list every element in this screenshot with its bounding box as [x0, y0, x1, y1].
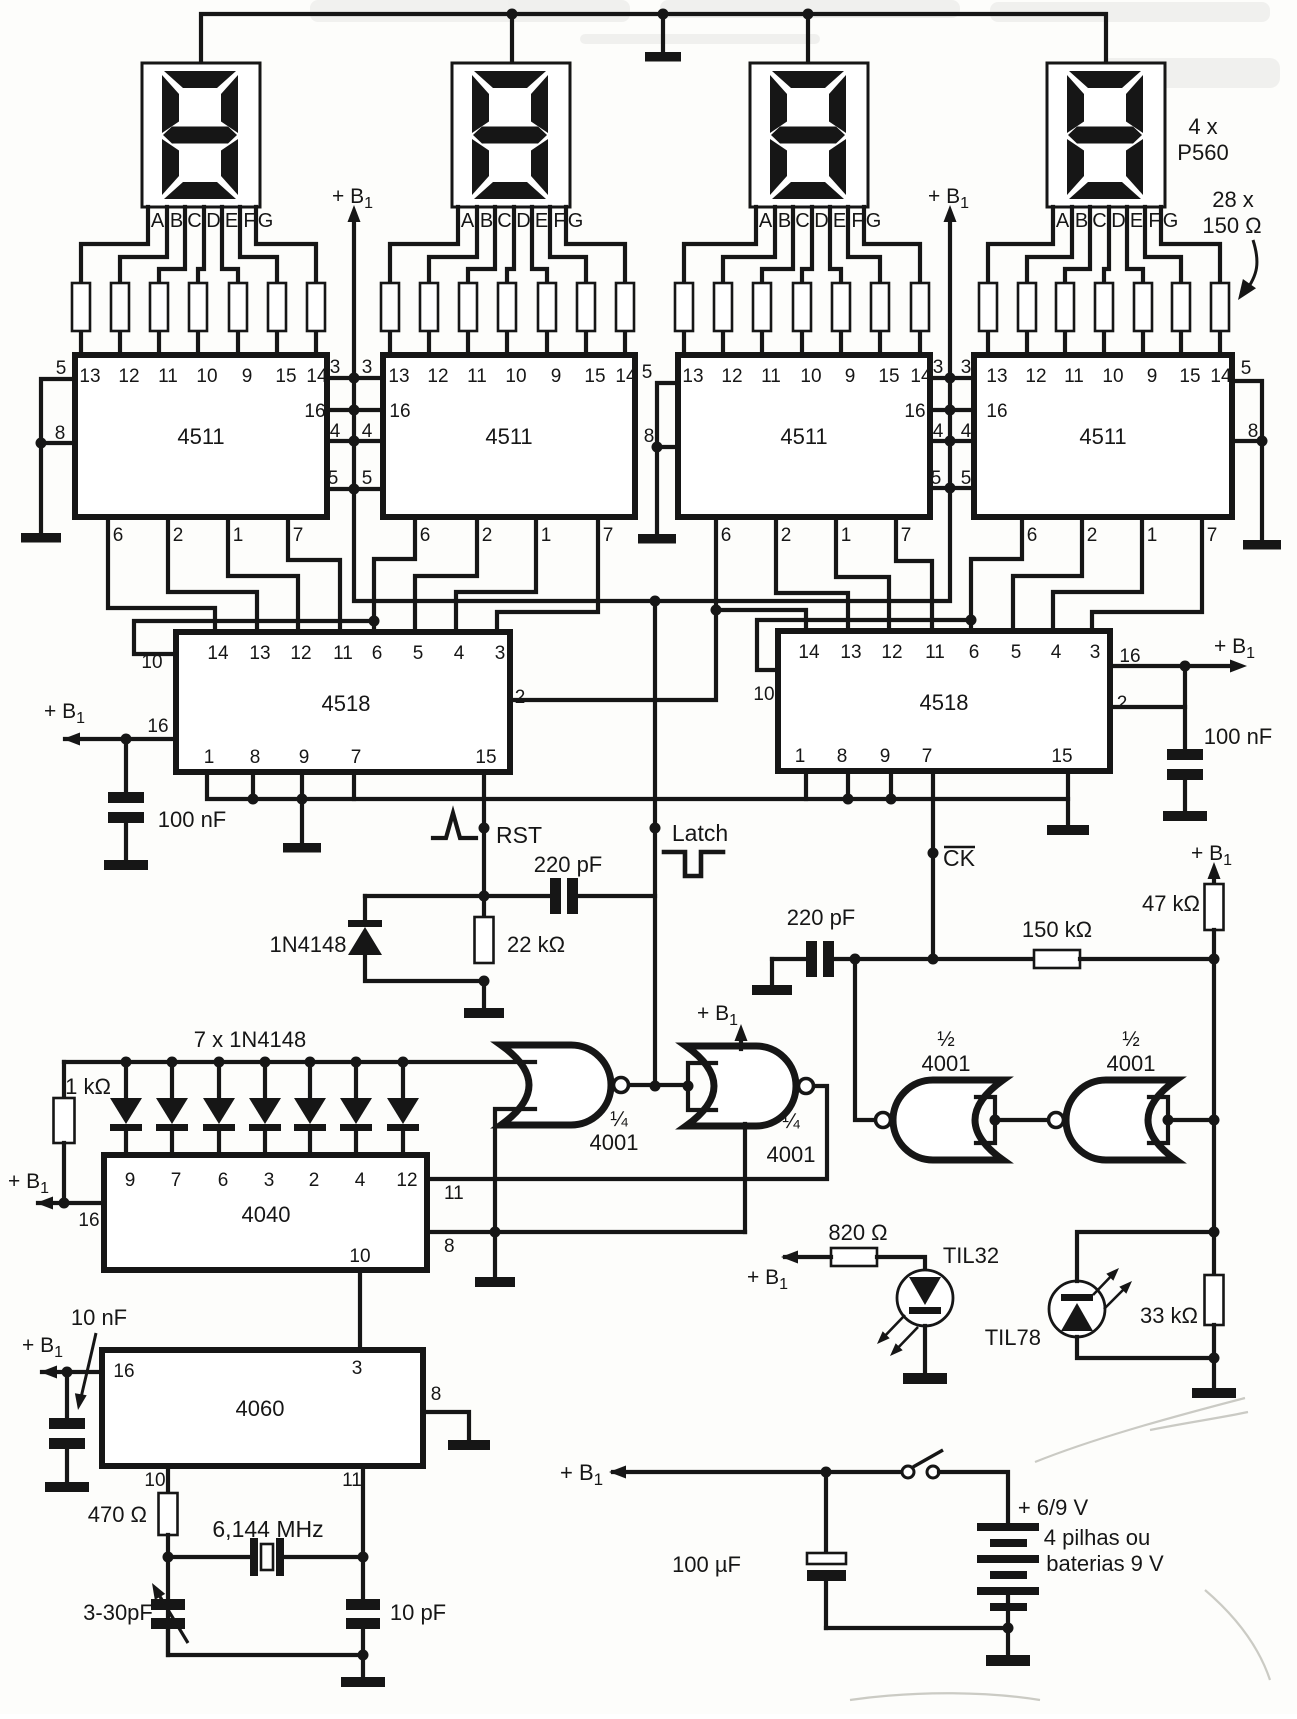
wires: resistors to 4511 U4 inputs [988, 331, 1220, 355]
ground (C7) [45, 1482, 89, 1492]
svg-text:6: 6 [113, 525, 124, 546]
svg-text:F: F [851, 210, 863, 232]
IC 4518 U6 (dual BCD counter) [778, 631, 1127, 771]
svg-text:4 pilhas ou: 4 pilhas ou [1044, 1525, 1150, 1550]
wire: TIL32 to ground [923, 1326, 927, 1373]
svg-text:7: 7 [171, 1170, 182, 1191]
svg-text:F: F [1148, 210, 1160, 232]
svg-text:E: E [225, 210, 238, 232]
resistor R31 150k [1034, 950, 1080, 968]
annotation arrow to C7 [80, 1333, 96, 1402]
svg-text:7: 7 [293, 525, 304, 546]
svg-text:10: 10 [505, 366, 526, 387]
ground (C2) [1163, 811, 1207, 821]
svg-text:11: 11 [1064, 366, 1084, 387]
symbol: reset pulse [433, 813, 476, 838]
svg-text:C: C [1092, 210, 1106, 232]
wire: bus ground stub [661, 14, 665, 52]
svg-text:9: 9 [242, 366, 253, 387]
svg-text:5: 5 [1241, 358, 1252, 379]
ground (C1) [104, 860, 148, 870]
svg-text:G: G [568, 210, 584, 232]
svg-text:11: 11 [158, 366, 178, 387]
capacitor C9 100uF electrolytic [824, 1472, 828, 1553]
svg-text:B: B [778, 210, 791, 232]
wire: 4518 ground rail (pins 1,8,9,7 / 1,8,9) [207, 772, 1068, 825]
svg-text:4511: 4511 [485, 424, 532, 449]
wires: U4 BCD inputs (pins 6,2,1,7) to 4518 U6 outputs 6,5,4,3 [971, 517, 1202, 631]
wire: +B1 rail through 4511 pairs down to logic area [354, 219, 950, 601]
wire: N2 output to 4040 pin 11 [427, 1086, 827, 1179]
svg-text:4001: 4001 [767, 1142, 816, 1167]
svg-text:12: 12 [118, 366, 139, 387]
svg-text:1: 1 [1147, 525, 1158, 546]
svg-text:12: 12 [881, 642, 902, 663]
wire: N3 inputs to N4 output [995, 1118, 1049, 1122]
gate N2 1/4 4001 (NOR) [686, 1046, 796, 1126]
svg-text:Latch: Latch [672, 820, 728, 846]
resistor network 7 x 150 ohm for DISP2 [381, 283, 634, 331]
svg-text:CK: CK [943, 845, 976, 871]
wire: 4060 pin16 to +B1 [42, 1370, 102, 1374]
wire: 4060 pin11 column [361, 1466, 365, 1599]
ground (U6 pin 15) [1047, 825, 1089, 835]
wire: switch to battery [939, 1472, 1008, 1523]
svg-text:D: D [1111, 210, 1125, 232]
ground (TIL32) [903, 1373, 947, 1384]
wire: C3 to latch column [578, 894, 655, 898]
wire: TIL78 to 47k column [1077, 1232, 1214, 1281]
node: +B1 taps on U3/U4 pins [945, 373, 956, 384]
svg-text:6: 6 [721, 525, 732, 546]
svg-text:5: 5 [362, 468, 373, 489]
svg-text:11: 11 [333, 643, 353, 664]
wire: U5 pin 2 to U3 pin 6 / U6 pin 14 [510, 610, 716, 700]
svg-text:16: 16 [986, 401, 1007, 422]
wire: 820 to +B1 [785, 1255, 831, 1259]
svg-text:4: 4 [961, 421, 972, 442]
capacitor C1 100nF (U5 supply) [124, 739, 128, 792]
svg-text:10: 10 [753, 684, 774, 705]
svg-text:10 nF: 10 nF [71, 1305, 127, 1330]
wire: battery feed to +B1 [613, 1470, 902, 1474]
svg-text:7: 7 [1207, 525, 1218, 546]
svg-text:5: 5 [642, 362, 653, 383]
wire: N1 output to N2 inputs [629, 1083, 688, 1087]
capacitor C8 10pF [346, 1599, 380, 1610]
svg-text:6,144 MHz: 6,144 MHz [212, 1516, 323, 1542]
svg-text:2: 2 [173, 525, 184, 546]
svg-text:8: 8 [644, 426, 655, 447]
svg-text:10: 10 [800, 366, 821, 387]
trimmer capacitor CV 3-30pF [151, 1599, 185, 1610]
wire: oscillator bottom return [168, 1629, 363, 1655]
svg-text:11: 11 [342, 1470, 362, 1491]
wires: U2 BCD inputs (pins 6,2,1,7) to 4518 U5 outputs 6,5,4,3 [374, 517, 598, 632]
wire: U6 pin 15 stub [1066, 771, 1070, 799]
svg-text:5: 5 [1011, 642, 1022, 663]
svg-text:E: E [1130, 210, 1143, 232]
svg-text:8: 8 [250, 747, 261, 768]
diode D3 1N4148 [203, 1062, 235, 1155]
svg-text:2: 2 [1117, 693, 1128, 714]
gate N1 1/4 4001 (NOR) [501, 1045, 611, 1125]
svg-text:12: 12 [427, 366, 448, 387]
svg-text:4518: 4518 [322, 691, 371, 716]
svg-text:4: 4 [933, 421, 944, 442]
svg-text:16: 16 [1119, 646, 1140, 667]
svg-text:4511: 4511 [1079, 424, 1126, 449]
svg-text:16: 16 [389, 401, 410, 422]
svg-text:8: 8 [444, 1236, 455, 1257]
svg-text:C: C [187, 210, 201, 232]
ground (N1 input / 4040 pin8) [475, 1277, 515, 1287]
svg-text:13: 13 [388, 366, 409, 387]
crystal X1 6.144 MHz [168, 1555, 252, 1559]
svg-text:15: 15 [275, 366, 296, 387]
svg-text:4: 4 [355, 1170, 366, 1191]
pin labels A-G of DISP1 [151, 210, 273, 232]
svg-text:6: 6 [420, 525, 431, 546]
pin labels A-G of DISP3 [759, 210, 881, 232]
IC 4518 U5 (dual BCD counter) [176, 632, 525, 772]
wires: resistors to 4511 U2 inputs [390, 331, 625, 355]
scan bleed-through artifact (decorative) [310, 0, 1280, 88]
svg-text:9: 9 [299, 747, 310, 768]
svg-text:14: 14 [615, 366, 637, 387]
svg-text:3: 3 [362, 357, 373, 378]
resistor R33 33k [1205, 1275, 1224, 1325]
wires: U3-U4 pins 3,16,4,5 interconnect [930, 378, 974, 488]
ground (top bus) [645, 52, 681, 62]
svg-text:6: 6 [1027, 525, 1038, 546]
svg-text:5: 5 [328, 468, 339, 489]
svg-text:7: 7 [351, 747, 362, 768]
svg-text:4001: 4001 [1107, 1051, 1156, 1076]
wire: 4060 pin8 to ground [423, 1412, 469, 1440]
svg-text:+ 6/9 V: + 6/9 V [1018, 1495, 1089, 1520]
svg-text:15: 15 [475, 747, 496, 768]
ground (U5 pin 9) [283, 843, 321, 853]
svg-text:8: 8 [1248, 421, 1259, 442]
IC 4511 U3 (BCD to 7-seg decoder) [678, 355, 932, 546]
svg-text:3: 3 [330, 357, 341, 378]
IC 4060 U8 (oscillator divider) [102, 1350, 423, 1466]
wire: U6 pin 7 CK line [931, 771, 935, 959]
wire: U5 pin 15 RST node [482, 772, 486, 917]
svg-text:¼: ¼ [782, 1110, 800, 1133]
capacitor C4 220pF (osc) [772, 957, 806, 961]
wire: 150k to +B1/47k column [1080, 957, 1214, 961]
svg-text:16: 16 [113, 1361, 134, 1382]
resistor R29 22k [475, 917, 494, 963]
svg-text:1: 1 [795, 746, 806, 767]
svg-text:D: D [516, 210, 530, 232]
svg-text:12: 12 [290, 643, 311, 664]
svg-text:4 x: 4 x [1188, 114, 1217, 139]
svg-text:15: 15 [878, 366, 899, 387]
wires: U3 BCD inputs (pins 6,2,1,7) to 4518 U6 outputs 14,13,12,11 [716, 517, 932, 631]
svg-text:820 Ω: 820 Ω [828, 1220, 887, 1245]
svg-text:3-30pF: 3-30pF [83, 1600, 153, 1625]
wire: U4 pins 5,8 to ground [1232, 381, 1262, 540]
svg-text:F: F [553, 210, 565, 232]
svg-text:4511: 4511 [780, 424, 827, 449]
display DISP4 (7-segment, P560) [1047, 63, 1165, 207]
svg-text:3: 3 [264, 1170, 275, 1191]
svg-text:7: 7 [922, 746, 933, 767]
svg-text:C: C [497, 210, 511, 232]
wire: 820 to TIL32 [877, 1257, 925, 1271]
svg-text:220 pF: 220 pF [787, 905, 856, 930]
capacitor C2 100nF (U6 supply) [1183, 666, 1187, 749]
wires: DISP3 segment leads to resistors [684, 207, 920, 283]
wire: N1 lower input from ground rail [495, 1109, 535, 1277]
wire: 4040 pin 8 rail [427, 1230, 745, 1234]
svg-text:11: 11 [444, 1183, 464, 1204]
diode D6 1N4148 [340, 1062, 372, 1155]
svg-text:12: 12 [721, 366, 742, 387]
input tie bracket N3 [976, 1097, 995, 1143]
svg-text:4511: 4511 [177, 424, 224, 449]
svg-text:47 kΩ: 47 kΩ [1142, 891, 1200, 916]
wire: battery negative return [826, 1595, 1008, 1628]
svg-text:470 Ω: 470 Ω [88, 1502, 147, 1527]
svg-text:8: 8 [55, 423, 66, 444]
IC 4511 U4 (BCD to 7-seg decoder) [974, 355, 1232, 546]
svg-text:4001: 4001 [590, 1130, 639, 1155]
svg-text:½: ½ [1122, 1028, 1140, 1051]
svg-text:33 kΩ: 33 kΩ [1140, 1303, 1198, 1328]
resistor network 7 x 150 ohm for DISP3 [675, 283, 929, 331]
svg-text:13: 13 [249, 643, 270, 664]
svg-text:1: 1 [233, 525, 244, 546]
svg-text:½: ½ [937, 1028, 955, 1051]
svg-text:C: C [795, 210, 809, 232]
wire: RST node to diode and cap [365, 894, 553, 898]
wires: U1-U2 pins 3,16,4,5 interconnect [327, 378, 383, 489]
wires: DISP2 segment leads to resistors [390, 207, 625, 283]
svg-text:G: G [1163, 210, 1179, 232]
svg-text:D: D [206, 210, 220, 232]
svg-text:4: 4 [330, 421, 341, 442]
wire: diode bus to N1 upper input [64, 1060, 535, 1064]
display DISP1 (7-segment, P560) [142, 63, 260, 207]
svg-text:4001: 4001 [922, 1051, 971, 1076]
svg-text:11: 11 [761, 366, 781, 387]
wire: U6 pin 16 to +B1 [1110, 664, 1238, 668]
svg-text:12: 12 [1025, 366, 1046, 387]
node: +B1 taps on U1/U2 pins [349, 373, 360, 384]
svg-text:13: 13 [682, 366, 703, 387]
IC 4511 U1 (BCD to 7-seg decoder) [75, 355, 328, 546]
resistor network 7 x 150 ohm for DISP1 [72, 283, 325, 331]
svg-text:3: 3 [961, 357, 972, 378]
svg-text:7 x 1N4148: 7 x 1N4148 [194, 1027, 307, 1052]
svg-text:E: E [535, 210, 548, 232]
wires: resistors to 4511 U1 inputs [81, 331, 316, 355]
svg-text:28 x: 28 x [1212, 187, 1254, 212]
svg-text:11: 11 [925, 642, 945, 663]
resistor network 7 x 150 ohm for DISP4 [979, 283, 1229, 331]
wires: DISP4 segment leads to resistors [988, 207, 1220, 283]
svg-text:7: 7 [901, 525, 912, 546]
svg-text:2: 2 [309, 1170, 320, 1191]
svg-text:1: 1 [204, 747, 215, 768]
LED TIL32 (IR emitter) [897, 1270, 953, 1326]
emission arrows TIL32 [880, 1315, 918, 1353]
wire: osc RC rail [834, 957, 1034, 961]
svg-text:2: 2 [781, 525, 792, 546]
svg-text:9: 9 [1147, 366, 1158, 387]
svg-text:4: 4 [454, 643, 465, 664]
svg-text:5: 5 [413, 643, 424, 664]
ground (U4 pins 5,8) [1243, 540, 1281, 550]
svg-text:1: 1 [841, 525, 852, 546]
wire: U6 pin 10 loop to pin 6 column [757, 620, 971, 670]
svg-text:3: 3 [1090, 642, 1101, 663]
svg-text:5: 5 [931, 468, 942, 489]
svg-text:9: 9 [125, 1170, 136, 1191]
wire: U3 pins 5,8 to ground [657, 383, 678, 534]
svg-text:15: 15 [1051, 746, 1072, 767]
wire: N2 power/ground stubs [743, 1124, 747, 1232]
ground (C4) [752, 985, 792, 995]
svg-text:TIL78: TIL78 [985, 1325, 1041, 1350]
node: bus junctions [507, 9, 518, 20]
svg-text:1 kΩ: 1 kΩ [65, 1074, 111, 1099]
diode D4 1N4148 [249, 1062, 281, 1155]
input tie bracket N4 [1149, 1097, 1168, 1143]
ground (osc) [341, 1677, 385, 1687]
ground (U3 pins 5,8) [638, 534, 676, 544]
svg-text:2: 2 [482, 525, 493, 546]
svg-text:13: 13 [79, 366, 100, 387]
svg-text:10: 10 [144, 1470, 165, 1491]
wire: osc feedback down to gate N3 output [855, 959, 877, 1120]
wire: DISP2 common lead [510, 14, 514, 63]
svg-text:A: A [461, 210, 475, 232]
wire: N4 inputs to +B1/47k column [1168, 1118, 1214, 1122]
svg-text:B: B [1075, 210, 1088, 232]
wire: display common-anode top bus [201, 14, 1106, 63]
wires: resistors to 4511 U3 inputs [684, 331, 920, 355]
svg-text:12: 12 [396, 1170, 417, 1191]
svg-text:220 pF: 220 pF [534, 852, 603, 877]
resistor R30 47k [1212, 876, 1216, 884]
battery B1 (4 cells) [977, 1523, 1039, 1611]
svg-text:4060: 4060 [236, 1396, 285, 1421]
wire: 4040 pin10 to 4060 pin3 [358, 1270, 362, 1350]
svg-text:10: 10 [1102, 366, 1123, 387]
wire: U6 pin 2 to +B1 column [1110, 705, 1185, 709]
svg-text:P560: P560 [1177, 140, 1228, 165]
svg-text:8: 8 [837, 746, 848, 767]
svg-text:11: 11 [467, 366, 487, 387]
scan crease marks (decorative) [850, 1398, 1270, 1700]
svg-text:E: E [833, 210, 846, 232]
svg-text:15: 15 [584, 366, 605, 387]
capacitor C3 220pF [550, 878, 561, 914]
svg-text:4: 4 [362, 421, 373, 442]
svg-text:6: 6 [218, 1170, 229, 1191]
svg-text:D: D [814, 210, 828, 232]
svg-text:6: 6 [372, 643, 383, 664]
wires: DISP1 segment leads to resistors [81, 207, 316, 283]
diode D2 1N4148 [156, 1062, 188, 1155]
svg-text:6: 6 [969, 642, 980, 663]
svg-text:10: 10 [196, 366, 217, 387]
ground (33k) [1192, 1388, 1236, 1398]
pin labels A-G of DISP2 [461, 210, 583, 232]
svg-text:100 nF: 100 nF [1204, 724, 1273, 749]
ground (R29) [464, 1008, 504, 1018]
svg-text:4518: 4518 [920, 690, 969, 715]
gate N4 1/2 4001 (NOR, mirrored) [1066, 1080, 1176, 1160]
reception arrows TIL78 [1093, 1271, 1129, 1309]
svg-text:5: 5 [961, 468, 972, 489]
resistor R28 1k [62, 1062, 66, 1098]
svg-text:3: 3 [495, 643, 506, 664]
svg-text:4: 4 [1051, 642, 1062, 663]
wire: U1 pins 5,8 to ground [41, 379, 75, 533]
photodiode TIL78 [1049, 1281, 1105, 1337]
ground (4060 pin 8) [448, 1440, 490, 1450]
wire: 47k column down [1212, 930, 1216, 1275]
gate N3 1/2 4001 (NOR, mirrored) [893, 1080, 1003, 1160]
svg-text:baterias 9 V: baterias 9 V [1046, 1551, 1164, 1576]
svg-text:9: 9 [551, 366, 562, 387]
svg-text:16: 16 [904, 401, 925, 422]
svg-text:2: 2 [1087, 525, 1098, 546]
svg-text:16: 16 [304, 401, 325, 422]
svg-text:¼: ¼ [610, 1108, 628, 1131]
svg-text:A: A [1056, 210, 1070, 232]
svg-text:14: 14 [306, 366, 328, 387]
svg-text:A: A [759, 210, 773, 232]
ground (battery) [986, 1655, 1030, 1666]
switch S1 [902, 1466, 914, 1478]
svg-text:10 pF: 10 pF [390, 1600, 446, 1625]
svg-text:13: 13 [986, 366, 1007, 387]
svg-text:F: F [243, 210, 255, 232]
svg-text:22 kΩ: 22 kΩ [507, 932, 565, 957]
wire: U5 pin 10 loop to pin 6 column [134, 621, 374, 654]
svg-text:B: B [170, 210, 183, 232]
diode D7 1N4148 [387, 1062, 419, 1155]
svg-text:14: 14 [1210, 366, 1232, 387]
svg-text:A: A [151, 210, 165, 232]
input tie bracket N2 [688, 1063, 716, 1110]
svg-text:5: 5 [56, 358, 67, 379]
svg-text:B: B [480, 210, 493, 232]
svg-text:150 Ω: 150 Ω [1202, 213, 1261, 238]
svg-text:15: 15 [1179, 366, 1200, 387]
capacitor C7 10nF [65, 1372, 69, 1418]
svg-text:3: 3 [352, 1358, 363, 1379]
svg-text:9: 9 [880, 746, 891, 767]
symbol: latch pulse [664, 852, 723, 876]
svg-text:14: 14 [207, 643, 229, 664]
ground (U1 pins 5,8) [21, 533, 61, 543]
svg-text:1: 1 [541, 525, 552, 546]
wire: U5 pin 16 to +B1 [65, 737, 176, 741]
resistor R34 470 ohm (4060 pin10) [166, 1466, 170, 1493]
svg-text:7: 7 [603, 525, 614, 546]
svg-text:1N4148: 1N4148 [269, 932, 346, 957]
svg-text:100 nF: 100 nF [158, 807, 227, 832]
wires: U1 BCD inputs (pins 6,2,1,7) to 4518 U5 outputs 14,13,12,11 [108, 517, 340, 632]
